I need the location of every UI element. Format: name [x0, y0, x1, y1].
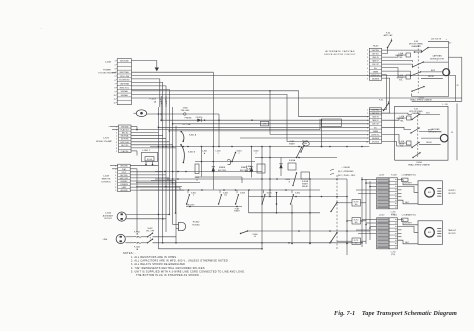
- svg-text:7: 7: [367, 131, 368, 133]
- resistor R-710 300 OHM: [352, 218, 361, 225]
- svg-text:DE-ENER: DE-ENER: [372, 78, 380, 80]
- svg-text:7: 7: [115, 184, 116, 186]
- wire bus to TB-65 row3: [299, 116, 370, 118]
- svg-text:RUN: RUN: [303, 143, 308, 145]
- svg-text:L-1001 1: L-1001 1: [142, 150, 151, 152]
- relay K-800B START RELAY: [301, 172, 310, 179]
- svg-text:RECORD: RECORD: [187, 204, 195, 206]
- motor B-65 capstan drive motor: [440, 134, 448, 142]
- svg-text:HY-800: HY-800: [193, 222, 200, 224]
- wire J-1003 row11 neutral long bus: [132, 97, 462, 99]
- switch blade S-60 pole2: [411, 72, 421, 76]
- wire TB-60 row7: [382, 71, 411, 76]
- wire TB-65 row4 stub: [382, 118, 407, 120]
- svg-text:RELAY: RELAY: [245, 170, 252, 173]
- wire J-1003 row4 to K-relay riser: [132, 72, 214, 146]
- svg-text:F-1003: F-1003: [150, 99, 157, 101]
- svg-text:GROUND: GROUND: [120, 166, 128, 168]
- svg-text:RECORD: RECORD: [121, 145, 129, 147]
- svg-text:Fig. 7-1 Tape Transport: Fig. 7-1 Tape Transport Schematic Diagra…: [334, 310, 457, 317]
- svg-text:10: 10: [113, 95, 115, 97]
- svg-text:POWER: POWER: [103, 70, 111, 72]
- svg-text:CAL-LAG: CAL-LAG: [181, 109, 190, 112]
- svg-text:NOTES: -: NOTES: -: [123, 252, 136, 255]
- switch blade S-810: [331, 203, 337, 212]
- wire lamp line: [147, 113, 219, 115]
- contact element x276.5: [276, 193, 278, 205]
- wire TB-60 row8 riser to TB-65: [369, 75, 386, 110]
- wire motor feed low: [398, 200, 419, 204]
- svg-text:DRIVE SOL: DRIVE SOL: [371, 75, 380, 77]
- svg-text:RECORD: RECORD: [120, 175, 128, 177]
- wire J-1003 row7: [132, 82, 163, 107]
- wire vertical bus 3: [162, 107, 164, 243]
- capacitor motor cap: [437, 188, 441, 190]
- svg-text:8: 8: [367, 75, 368, 77]
- svg-text:1. ALL RESISTORS ARE IN OHMS: 1. ALL RESISTORS ARE IN OHMS .: [131, 256, 178, 259]
- svg-text:2: 2: [255, 153, 256, 155]
- wire J-1003 row5 115V long bus to capstan circuit: [132, 75, 456, 101]
- switch blade S-60 line: [422, 48, 429, 52]
- svg-text:5: 5: [367, 64, 368, 66]
- svg-text:B-70: B-70: [428, 232, 431, 234]
- pushbutton switch S-803: [236, 195, 239, 204]
- fuse F-1004: [165, 96, 167, 107]
- svg-text:1: 1: [116, 127, 117, 129]
- wire outlet bottom: [126, 218, 166, 220]
- svg-text:FAST FWD: FAST FWD: [120, 177, 129, 180]
- pushbutton switch S-801: [187, 195, 190, 204]
- wire riser x366: [365, 179, 367, 244]
- svg-text:START: START: [234, 210, 241, 213]
- svg-text:1: 1: [115, 61, 116, 63]
- svg-text:11: 11: [114, 99, 116, 101]
- resistor R-801 on bus: [321, 119, 341, 127]
- relay coil L-60B: [406, 75, 411, 79]
- svg-text:GROUND: GROUND: [121, 127, 129, 129]
- wire right vertical x461.8 rail: [461, 57, 463, 101]
- fuse F-60: [388, 41, 392, 48]
- capacitor motor cap: [437, 228, 441, 230]
- svg-text:3: 3: [115, 68, 116, 70]
- wire riser x370: [369, 181, 371, 240]
- outlet J-1008 LINE: [116, 234, 125, 243]
- wire y231: [248, 230, 371, 232]
- wire vertical bus 5: [168, 107, 170, 215]
- svg-text:2: 2: [367, 113, 368, 115]
- connector P-1010: [389, 218, 398, 249]
- wires rows group2: [362, 219, 377, 221]
- motor B-60 capstan drive motor: [443, 69, 450, 76]
- wire bus to TB-65 row6: [158, 126, 369, 128]
- wire TB-60 row4: [382, 61, 413, 62]
- svg-text:NEUTRAL: NEUTRAL: [120, 71, 130, 74]
- wire TB-60 row9 riser to TB-65: [369, 78, 389, 113]
- motor TAKE-UP MOTOR: [418, 221, 443, 245]
- svg-text:CAPSTAN: CAPSTAN: [432, 55, 442, 58]
- wire J-1070 row1 stub: [110, 126, 119, 128]
- wire y190 pushbutton bus: [140, 189, 320, 191]
- svg-text:PRESS: PRESS: [185, 117, 192, 119]
- svg-text:CUE OUT: CUE OUT: [372, 64, 379, 66]
- switch gang dashed S-1002: [149, 235, 151, 242]
- wire bus to TB-65 row4 with diode CR-801: [161, 119, 369, 121]
- svg-text:SIGNAL: SIGNAL: [121, 90, 129, 93]
- svg-text:REWIND: REWIND: [121, 181, 129, 183]
- wire TB-65 row6 stub: [382, 127, 411, 129]
- wire vertical x310: [309, 179, 311, 244]
- wire riser x219: [218, 114, 220, 147]
- svg-text:AUXILIARY: AUXILIARY: [103, 214, 114, 217]
- svg-text:3: 3: [367, 117, 368, 119]
- svg-text:9: 9: [115, 190, 116, 192]
- wire vertical bus 7: [175, 126, 177, 243]
- svg-text:3: 3: [367, 57, 368, 59]
- wire y177: [195, 176, 242, 178]
- svg-text:8: 8: [115, 187, 116, 189]
- svg-text:SOL.: SOL.: [399, 80, 403, 82]
- svg-text:SMALL SPEED CHANGE: SMALL SPEED CHANGE: [408, 163, 430, 166]
- wire rail y101.3: [412, 100, 462, 102]
- svg-text:5: 5: [115, 76, 116, 78]
- diode CR-804: [280, 158, 282, 177]
- switch blade S-65 pole4: [413, 153, 420, 158]
- wire y186.5: [136, 186, 182, 188]
- resistor R-711 300 OHM: [352, 238, 361, 245]
- wire motor feed low: [398, 240, 419, 244]
- svg-text:26: 26: [451, 132, 453, 134]
- svg-text:10: 10: [366, 141, 368, 143]
- svg-text:5. UNIT IS SUPPLIED WITH A 3: 5. UNIT IS SUPPLIED WITH A 3-WIRE LINE C…: [131, 270, 245, 273]
- svg-text:5: 5: [367, 124, 368, 126]
- svg-text:1: 1: [217, 153, 218, 155]
- curl hook: [227, 159, 231, 164]
- wire vertical x347: [346, 179, 348, 255]
- wire J-1003 row10: [132, 94, 288, 141]
- svg-text:SMALL SPEED CHANGE: SMALL SPEED CHANGE: [410, 99, 432, 102]
- wire J-1003 row8: [132, 86, 167, 107]
- svg-text:12: 12: [113, 103, 115, 105]
- svg-text:GROUND: GROUND: [120, 190, 128, 192]
- switch S-1001B: [181, 145, 184, 163]
- svg-text:3: 3: [115, 172, 116, 174]
- wire blade to motor y138: [421, 137, 441, 139]
- svg-text:4: 4: [367, 120, 368, 122]
- switch S-801: [232, 153, 236, 162]
- svg-text:60 ~: 60 ~: [449, 43, 453, 45]
- wire vertical x292: [291, 205, 293, 244]
- svg-text:SOL.: SOL.: [400, 146, 404, 148]
- wire y182.5: [136, 182, 200, 184]
- pushbutton switch S-805: [291, 195, 294, 204]
- svg-text:26: 26: [457, 85, 459, 87]
- switch S-1001A: [181, 132, 184, 142]
- switch gang dashed S-65: [417, 112, 419, 157]
- outlet J-1006 AUXILIARY OUTLET: [117, 212, 126, 221]
- relay coil L-65B: [407, 141, 412, 145]
- wire y171.5: [155, 171, 262, 173]
- motor SUPPLY MOTOR: [418, 181, 443, 205]
- pushbutton switch S-804: [262, 195, 265, 204]
- svg-text:6: 6: [115, 181, 116, 183]
- fuse F-1001: [125, 236, 133, 238]
- svg-text:5: 5: [116, 139, 117, 141]
- relay coil L-60A: [406, 53, 411, 57]
- wire vertical x213.3b: [212, 147, 214, 190]
- switch S-1002 pole B: [148, 239, 153, 243]
- wire row2 long to x320: [319, 119, 321, 130]
- svg-text:ON - OFF: ON - OFF: [146, 230, 155, 232]
- wire blade to motor y144: [419, 143, 441, 145]
- svg-text:4: 4: [116, 136, 117, 138]
- svg-text:2: 2: [238, 153, 239, 155]
- wire blade to motor y131.5: [419, 131, 441, 133]
- svg-text:2. ALL CAPACITORS ARE IN MFD,: 2. ALL CAPACITORS ARE IN MFD, 600 V., UN…: [131, 260, 230, 263]
- wire vertical x248.5: [248, 190, 250, 213]
- wire outlet top: [126, 213, 169, 215]
- wire line bus y243: [153, 242, 363, 244]
- svg-text:SPARE: SPARE: [219, 166, 226, 169]
- svg-text:SOL: SOL: [374, 127, 377, 129]
- svg-text:GROUND: GROUND: [120, 61, 129, 63]
- wire riser corners remote: [179, 187, 181, 190]
- svg-text:REL.: REL.: [400, 120, 404, 122]
- fuse F-1002: [125, 242, 133, 244]
- fuse F-65: [384, 104, 389, 111]
- svg-text:CONTROL: CONTROL: [101, 182, 112, 184]
- svg-text:ANTI CAP: ANTI CAP: [384, 34, 393, 37]
- svg-text:7: 7: [115, 84, 116, 86]
- svg-text:BLK/WHT: BLK/WHT: [404, 183, 412, 185]
- svg-text:8: 8: [115, 87, 116, 89]
- wire row stubs right: [398, 229, 402, 231]
- svg-text:T-800: T-800: [182, 108, 188, 110]
- svg-text:115V LINE: 115V LINE: [120, 76, 130, 78]
- svg-text:J-1009: J-1009: [103, 176, 110, 178]
- svg-text:1: 1: [367, 50, 368, 52]
- svg-text:6: 6: [367, 127, 368, 129]
- wire bracket under buttons: [186, 206, 242, 208]
- wire vertical bus 6: [172, 107, 174, 225]
- svg-text:2: 2: [367, 54, 368, 56]
- wire vertical x262: [261, 147, 263, 249]
- svg-text:SIGNAL: SIGNAL: [121, 94, 129, 97]
- svg-text:MOTORS: MOTORS: [121, 139, 129, 141]
- svg-text:CUE OUT: CUE OUT: [372, 124, 379, 126]
- wire top rail: [428, 41, 448, 96]
- svg-text:1-PB: 1-PB: [263, 124, 267, 126]
- svg-text:GROUND: GROUND: [372, 141, 380, 143]
- svg-text:ALTERNATE CAPSTAN: ALTERNATE CAPSTAN: [325, 50, 354, 53]
- svg-text:TAKE-UP: TAKE-UP: [448, 229, 457, 232]
- wire motor feed mid: [398, 226, 419, 232]
- svg-text:P-1010: P-1010: [391, 215, 397, 217]
- connector J-1070 MODEL 970 AMP: [119, 125, 132, 152]
- svg-text:(N.C.) PLAY + REC: (N.C.) PLAY + REC: [338, 174, 356, 177]
- svg-text:K-800A: K-800A: [289, 159, 296, 162]
- wire riser x321: [321, 120, 323, 146]
- svg-text:3: 3: [116, 133, 117, 135]
- svg-text:WHT: WHT: [405, 242, 409, 244]
- wire row stubs right: [398, 189, 402, 191]
- terminal block TB-65: [369, 108, 381, 144]
- wire TB-60 row6: [382, 68, 406, 77]
- svg-text:9: 9: [367, 138, 368, 140]
- svg-text:J-1006: J-1006: [105, 213, 112, 215]
- wire vertical bus 4: [165, 107, 167, 232]
- wires J-1009 rows out right: [130, 165, 158, 167]
- connector P-1007: [389, 178, 398, 209]
- lamp DS-1001: [136, 110, 146, 117]
- svg-text:6: 6: [367, 68, 368, 70]
- svg-text:MOTOR: MOTOR: [448, 233, 456, 235]
- svg-text:300: 300: [355, 222, 358, 224]
- svg-text:BRAKE SOL: BRAKE SOL: [406, 214, 416, 217]
- svg-text:COMMON: COMMON: [120, 184, 129, 186]
- svg-text:B-70: B-70: [428, 192, 431, 194]
- wire blade2 to motor: [421, 71, 443, 73]
- svg-text:9: 9: [367, 78, 368, 80]
- wire TB-60 row1 to line switch: [382, 50, 422, 52]
- svg-text:3. ALL RELAYS SHOWN DE-ENERGI: 3. ALL RELAYS SHOWN DE-ENERGIZED: [131, 263, 185, 266]
- wire relay row y161.5: [195, 161, 255, 163]
- svg-text:THE BOTTOM PLUG IS STRAPPED AS: THE BOTTOM PLUG IS STRAPPED AS SHOWN .: [136, 274, 201, 277]
- wire y196.5: [249, 196, 348, 198]
- switch S-800A: [241, 231, 248, 234]
- svg-text:BK/GR: BK/GR: [426, 142, 432, 144]
- relay K-800A: [288, 163, 296, 170]
- wire main bus y146.5: [150, 146, 369, 148]
- svg-text:RWD SOL: RWD SOL: [120, 87, 130, 89]
- svg-text:115 VOLTS: 115 VOLTS: [431, 39, 442, 41]
- wire TB-60 row5: [382, 64, 413, 67]
- diode CR-802: [212, 166, 215, 168]
- wire bus to TB-65 row8: [270, 133, 369, 135]
- svg-text:300: 300: [355, 204, 358, 206]
- svg-text:F-65: F-65: [379, 100, 383, 102]
- svg-text:5: 5: [115, 178, 116, 180]
- svg-text:P-1007: P-1007: [391, 175, 397, 177]
- wire riser x362: [361, 177, 363, 247]
- svg-text:(N.O.) PRESSED: (N.O.) PRESSED: [338, 171, 354, 173]
- switch gang dashed x337: [336, 175, 338, 250]
- wire J-1009 row1 stub: [110, 165, 118, 167]
- svg-text:SOL: SOL: [374, 68, 377, 70]
- relay K-800 PLAY RELAY: [257, 164, 265, 173]
- svg-text:NEUTRAL: NEUTRAL: [121, 135, 129, 138]
- connector J-1007: [377, 178, 390, 209]
- wire J-1003 row9 long: [132, 91, 299, 117]
- svg-text:1: 1: [367, 110, 368, 112]
- switch blade PLAY START: [297, 148, 302, 158]
- diode CR-803: [250, 166, 253, 168]
- switch blade S-60 pole3: [412, 87, 424, 92]
- wire blade3 to motor: [421, 77, 443, 79]
- pushbutton switch S-802: [219, 195, 222, 204]
- svg-text:START: START: [289, 142, 296, 145]
- wire vertical x201.5: [201, 147, 203, 177]
- svg-text:CAPSTAN: CAPSTAN: [120, 83, 130, 86]
- svg-text:B/LT: B/LT: [426, 112, 429, 114]
- svg-text:TB-60: TB-60: [373, 46, 379, 48]
- svg-text:CHANGER: CHANGER: [411, 45, 421, 48]
- svg-text:9: 9: [115, 91, 116, 93]
- wire J-1009 row2 stub: [112, 168, 118, 170]
- svg-text:OUTLET: OUTLET: [104, 218, 113, 220]
- wire motor feed mid: [398, 186, 419, 192]
- outer box capstan circuit 2: [395, 106, 448, 160]
- fuse F-1003: [160, 96, 162, 107]
- svg-text:J-1010: J-1010: [379, 215, 385, 217]
- svg-text:REL.: REL.: [399, 57, 403, 59]
- connector J-1010: [377, 218, 390, 249]
- switch blade S-65 pole2: [411, 128, 419, 133]
- wire J-1003 row9: [132, 89, 170, 107]
- switch S-1002 pole A: [148, 233, 153, 237]
- svg-text:ROUND: ROUND: [192, 224, 200, 226]
- svg-text:WHT: WHT: [405, 202, 409, 204]
- wire y179: [155, 178, 347, 180]
- wire TB-65 row8 stub: [382, 134, 407, 143]
- svg-text:TO ELECTRONICS: TO ELECTRONICS: [98, 73, 116, 75]
- svg-text:PLAY OUT: PLAY OUT: [121, 129, 129, 132]
- svg-text:2: 2: [193, 195, 194, 197]
- wire bus to TB-65 row7: [169, 130, 369, 132]
- svg-text:MODEL 970 AMP: MODEL 970 AMP: [96, 140, 112, 143]
- wire bus to TB-65 row5: [173, 123, 370, 125]
- lamp S-804 oval: [303, 142, 310, 146]
- svg-text:9: 9: [116, 151, 117, 153]
- svg-text:(770): (770): [391, 254, 396, 256]
- svg-text:BRAKE SOL: BRAKE SOL: [406, 174, 416, 177]
- svg-text:J-1007: J-1007: [379, 175, 385, 177]
- terminal block TB-60: [369, 48, 381, 80]
- wire vertical x251.5: [251, 147, 253, 178]
- switch blade x301: [301, 146, 304, 153]
- wire vertical x276.5: [276, 204, 278, 213]
- svg-text:DRIVE MOTOR: DRIVE MOTOR: [430, 58, 445, 60]
- svg-text:PLAY REL: PLAY REL: [121, 150, 129, 153]
- svg-text:F-60: F-60: [386, 33, 390, 35]
- svg-text:SUPPLY: SUPPLY: [448, 190, 456, 192]
- svg-text:1: 1: [115, 166, 116, 168]
- wire corner to HY-800: [151, 181, 176, 214]
- svg-text:REC IN: REC IN: [122, 133, 129, 135]
- svg-text:S-803: S-803: [240, 192, 245, 194]
- svg-text:4: 4: [367, 61, 368, 63]
- svg-text:DRIVE MOTOR CIRCUIT: DRIVE MOTOR CIRCUIT: [324, 54, 356, 56]
- wire J-1003 row6: [132, 79, 160, 107]
- wire TB-65 row10 stub: [382, 142, 412, 147]
- wire motor feed top: [398, 180, 419, 185]
- svg-text:BLK/WHT: BLK/WHT: [404, 223, 412, 225]
- svg-text:BK/R: BK/R: [431, 70, 436, 72]
- wire vertical bus 2: [160, 107, 162, 121]
- svg-text:SWITCHED: SWITCHED: [120, 142, 130, 144]
- svg-text:7: 7: [116, 145, 117, 147]
- switch gang dashed S-60: [417, 45, 419, 93]
- svg-text:2: 2: [115, 65, 116, 67]
- svg-text:MOTOR: MOTOR: [448, 193, 456, 195]
- component box on bus: [261, 121, 269, 126]
- wire y213: [249, 212, 321, 214]
- svg-text:~: ~: [40, 26, 42, 30]
- svg-text:← RELAY: ← RELAY: [341, 166, 351, 169]
- svg-text:7: 7: [367, 71, 368, 73]
- svg-text:4: 4: [115, 175, 116, 177]
- svg-text:R-1001: R-1001: [147, 159, 152, 161]
- connector J-1009 REMOTE CONTROL: [118, 164, 131, 191]
